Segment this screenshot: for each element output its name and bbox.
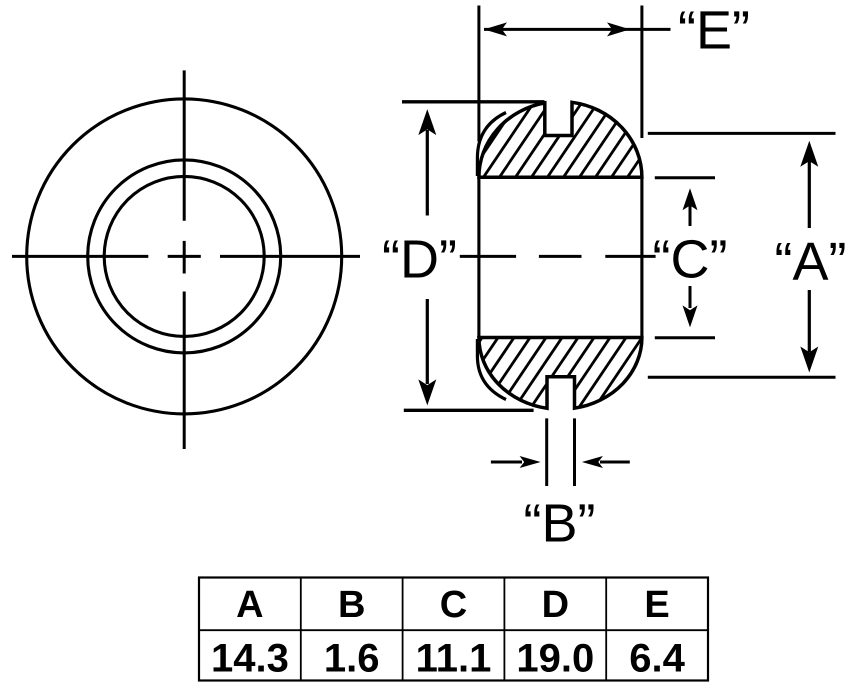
vertical centerline (183, 70, 186, 449)
body right wall (640, 177, 643, 337)
table column dividers (301, 578, 606, 681)
dimension table frame (199, 578, 708, 681)
horizontal centerline (12, 255, 360, 258)
table header row A B C D E (236, 584, 670, 626)
A bottom extension line (648, 376, 836, 379)
bottom flange cross-section (hatched dome with slot) (314, 160, 810, 516)
svg-text:11.1: 11.1 (416, 637, 492, 681)
outer circle (grommet flange OD) (27, 99, 342, 414)
svg-text:“B”: “B” (524, 494, 596, 554)
svg-text:1.6: 1.6 (324, 637, 380, 681)
svg-text:6.4: 6.4 (629, 637, 685, 681)
B extension line right (573, 418, 576, 486)
table value row (211, 637, 686, 681)
table row divider (199, 629, 708, 631)
svg-text:19.0: 19.0 (516, 637, 594, 681)
svg-text:“E”: “E” (678, 1, 750, 61)
middle circle (groove diameter) (88, 160, 281, 353)
top flange cross-section (hatched dome with slot notch) (315, 0, 811, 355)
dimension E line (484, 28, 671, 31)
C dimension line with arrows (683, 188, 698, 327)
D bottom extension line (404, 409, 534, 412)
B arrows (491, 456, 630, 468)
body left edge / E extension line left (477, 6, 480, 142)
body right edge / E extension line right (640, 6, 643, 139)
svg-text:D: D (542, 584, 569, 626)
svg-text:E: E (644, 584, 669, 626)
bottom dome left corner outer arc (477, 339, 506, 400)
svg-text:“C”: “C” (653, 230, 728, 290)
A dimension line with arrows (800, 141, 818, 373)
svg-text:B: B (338, 584, 365, 626)
top dome left corner outer arc (477, 113, 506, 177)
inner circle (hole ID) (104, 176, 264, 336)
svg-text:C: C (440, 584, 467, 626)
D top extension line (402, 100, 545, 103)
C top extension line (655, 176, 715, 179)
svg-text:A: A (236, 584, 263, 626)
svg-text:14.3: 14.3 (211, 637, 289, 681)
D dimension line with arrows (418, 109, 436, 405)
svg-text:“A”: “A” (775, 232, 847, 292)
C bottom extension line (655, 336, 715, 339)
body left wall (477, 177, 480, 337)
B extension line left (545, 418, 548, 486)
A top extension line (648, 132, 836, 135)
svg-text:“D”: “D” (382, 230, 457, 290)
section centerline (460, 255, 656, 258)
